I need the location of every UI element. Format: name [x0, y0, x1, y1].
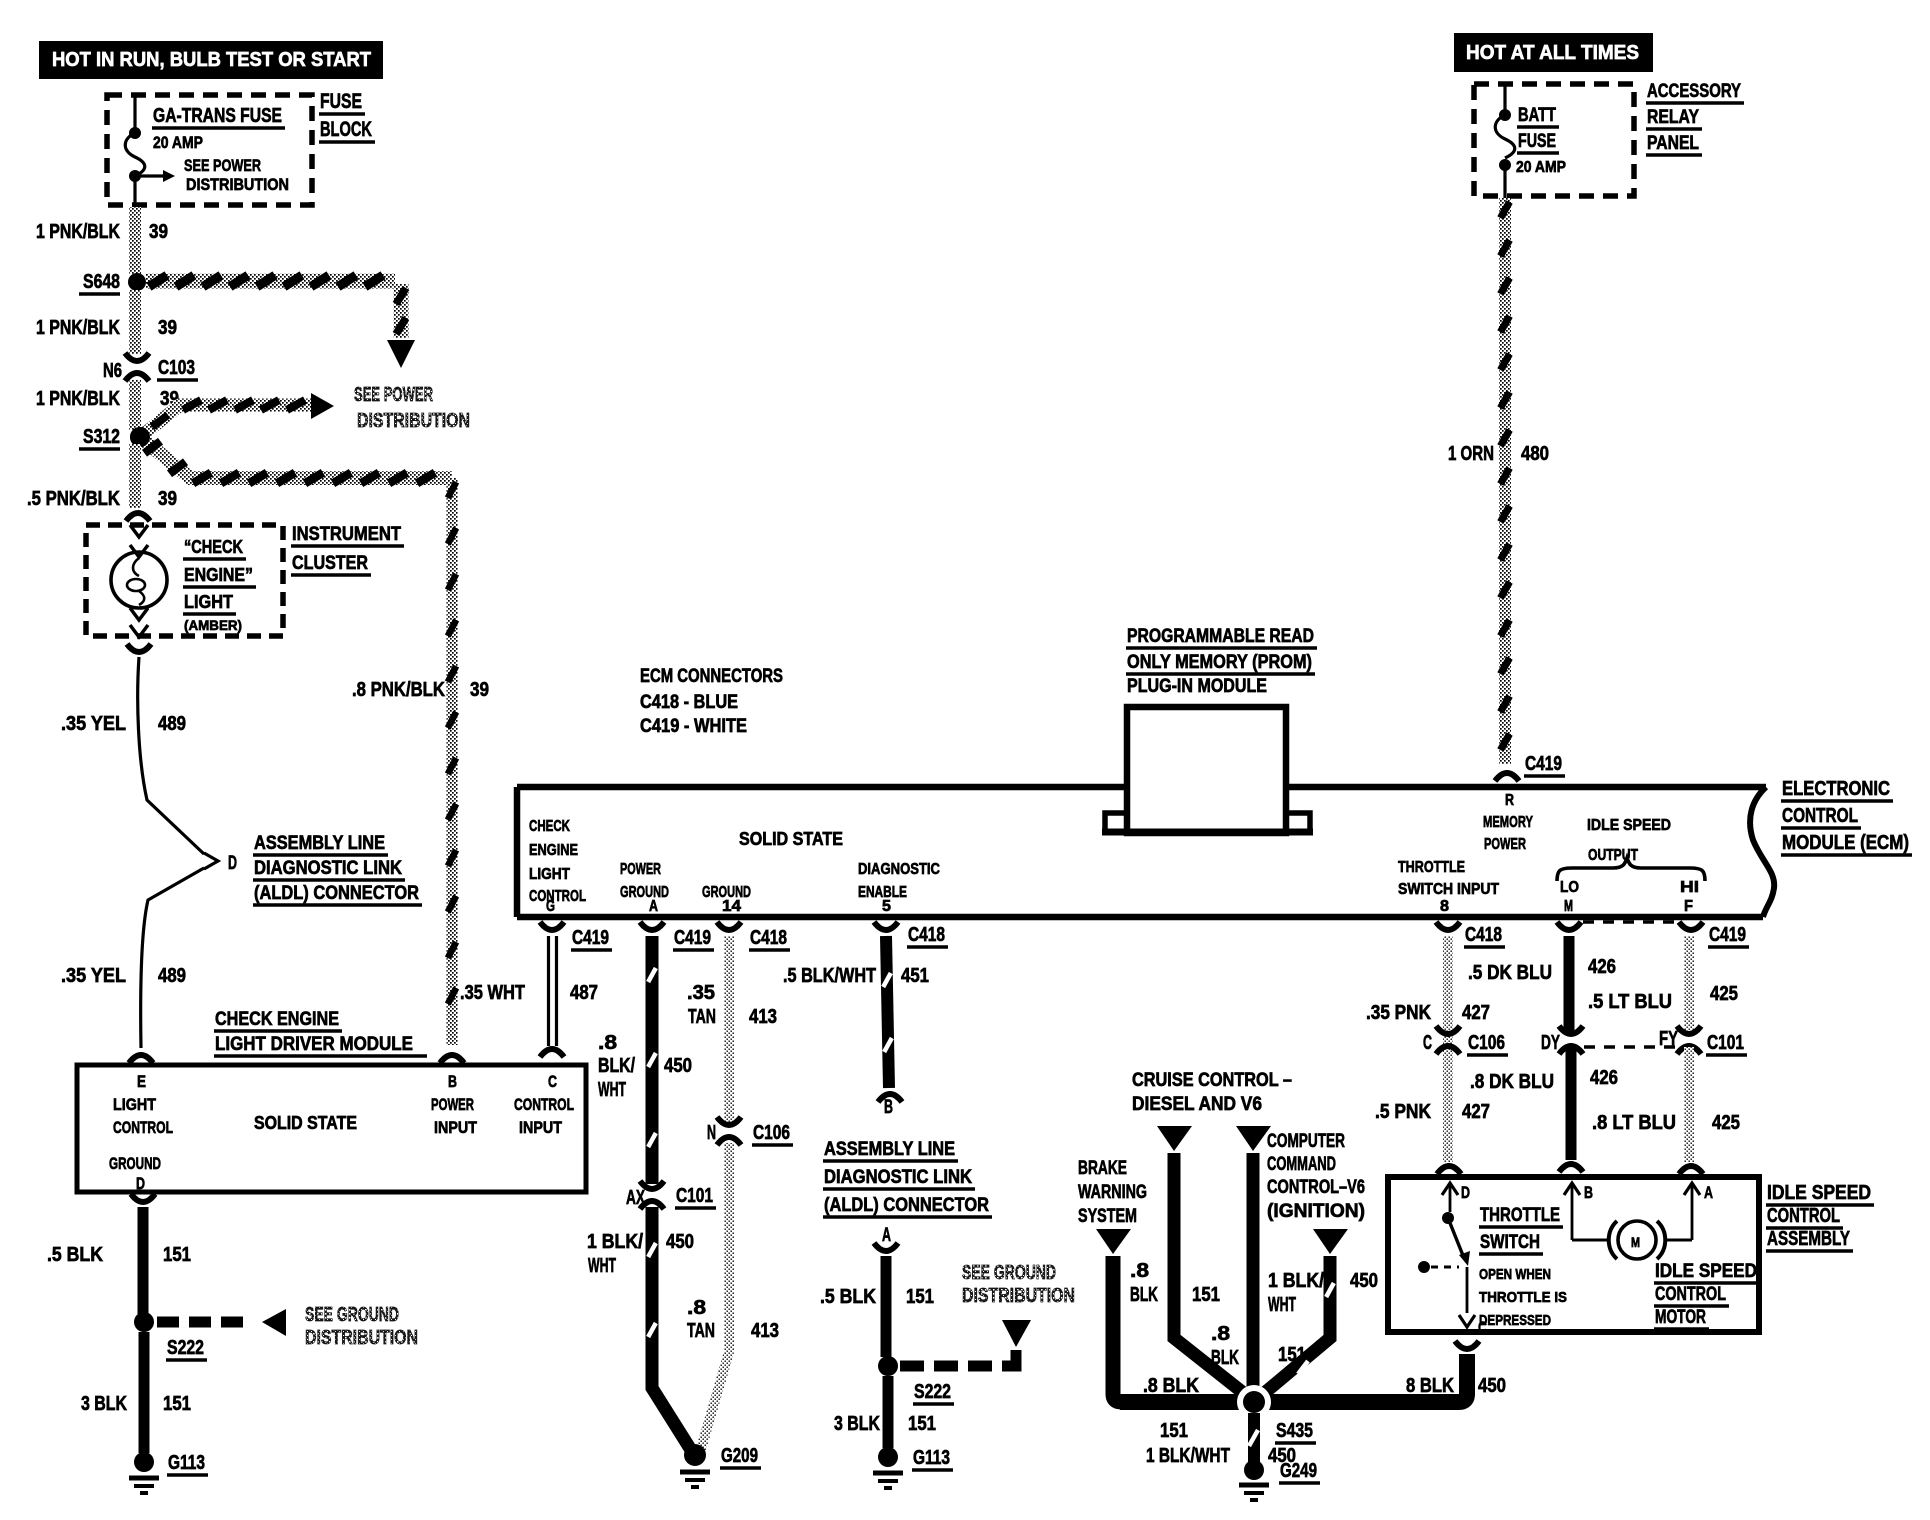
- svg-text:1 BLK/: 1 BLK/: [1268, 1270, 1324, 1292]
- svg-text:SOLID STATE: SOLID STATE: [254, 1113, 357, 1133]
- ECM pin G text: [529, 818, 586, 915]
- svg-text:COMPUTER: COMPUTER: [1267, 1131, 1345, 1152]
- connector C101 pin FY: [1659, 1026, 1747, 1055]
- connector C106 pin N: [707, 1117, 793, 1145]
- svg-text:ENGINE”: ENGINE”: [184, 565, 253, 585]
- svg-text:HOT AT ALL TIMES: HOT AT ALL TIMES: [1466, 42, 1639, 64]
- svg-text:BATT: BATT: [1518, 105, 1556, 126]
- svg-text:C419: C419: [572, 927, 609, 949]
- wire 425 .8 LT BLU: [1592, 1047, 1740, 1174]
- svg-text:HI: HI: [1680, 879, 1699, 896]
- svg-text:39: 39: [158, 317, 177, 339]
- svg-text:413: 413: [749, 1006, 777, 1028]
- dashed link C106-C101: [1584, 1045, 1675, 1048]
- connector C418 at pin 14: [717, 922, 790, 950]
- splice S648: [79, 271, 146, 294]
- connector C106 pin DY: [1541, 1026, 1583, 1054]
- svg-text:POWER: POWER: [1484, 836, 1526, 853]
- svg-text:BLK/: BLK/: [598, 1055, 635, 1077]
- wire .8 BLK 151 (cruise right): [1211, 1126, 1306, 1388]
- svg-text:425: 425: [1710, 983, 1738, 1005]
- PROM plug-in module box: [1102, 707, 1313, 833]
- svg-text:151: 151: [906, 1286, 934, 1308]
- svg-text:TAN: TAN: [687, 1320, 715, 1342]
- svg-text:OUTPUT: OUTPUT: [1588, 847, 1638, 864]
- wire 39 PNK/BLK (S648 to C103): [36, 290, 177, 354]
- svg-text:SEE GROUND: SEE GROUND: [962, 1262, 1056, 1284]
- svg-text:D: D: [228, 853, 237, 874]
- wire 39 .8 PNK/BLK vertical: [352, 478, 489, 1045]
- svg-text:POWER: POWER: [431, 1095, 474, 1114]
- note ECM connectors: [640, 666, 783, 737]
- note SEE GROUND DISTRIBUTION (middle): [962, 1262, 1075, 1307]
- svg-text:1 ORN: 1 ORN: [1448, 443, 1494, 465]
- svg-text:.8: .8: [598, 1032, 617, 1054]
- wire 39 branch to power distribution (S312 up): [140, 393, 334, 437]
- svg-text:MODULE (ECM): MODULE (ECM): [1782, 832, 1909, 854]
- check engine light driver module label: [214, 1009, 427, 1056]
- connector C419 at pin A: [640, 922, 714, 950]
- fuse block label: [319, 90, 375, 142]
- svg-text:SEE GROUND: SEE GROUND: [305, 1304, 399, 1326]
- PROM label: [1126, 626, 1317, 697]
- svg-text:GROUND: GROUND: [620, 884, 669, 901]
- svg-text:A: A: [649, 898, 658, 915]
- svg-text:S312: S312: [83, 426, 120, 448]
- node B (diagnostic enable): [878, 1094, 902, 1118]
- svg-text:489: 489: [158, 713, 186, 735]
- svg-text:1 PNK/BLK: 1 PNK/BLK: [36, 388, 120, 410]
- splice S312: [79, 426, 150, 449]
- svg-text:DISTRIBUTION: DISTRIBUTION: [186, 175, 289, 194]
- svg-text:GROUND: GROUND: [109, 1154, 161, 1173]
- connector at instrument cluster: [126, 513, 150, 521]
- ECM box (electronic control module): [517, 787, 1774, 917]
- svg-text:M: M: [1631, 1234, 1640, 1250]
- accessory relay panel (dashed box): [1474, 84, 1634, 196]
- svg-text:450: 450: [1350, 1270, 1378, 1292]
- ground G209: [680, 1444, 761, 1487]
- wire .8 BLK 151 (brake warning): [1096, 1229, 1199, 1402]
- svg-text:39: 39: [149, 221, 168, 243]
- note SEE GROUND DISTRIBUTION (left): [305, 1304, 418, 1349]
- connector C418 at pin 8: [1436, 922, 1505, 947]
- connector below driver module D: [131, 1194, 155, 1202]
- svg-text:.8: .8: [1211, 1323, 1230, 1345]
- svg-text:FUSE: FUSE: [1518, 131, 1556, 152]
- svg-text:THROTTLE IS: THROTTLE IS: [1479, 1289, 1567, 1306]
- ECM pin 5 text: [858, 861, 940, 915]
- svg-text:450: 450: [666, 1231, 694, 1253]
- connector C419 at pin G: [540, 922, 612, 950]
- svg-text:487: 487: [570, 982, 598, 1004]
- svg-text:PLUG-IN MODULE: PLUG-IN MODULE: [1127, 676, 1267, 697]
- connector C418 at pin 5: [874, 922, 948, 947]
- accessory relay panel label: [1646, 81, 1744, 155]
- svg-text:ELECTRONIC: ELECTRONIC: [1782, 778, 1890, 800]
- ALDL connector label (middle): [823, 1139, 992, 1217]
- svg-text:TAN: TAN: [688, 1006, 716, 1028]
- ECM pin F text: [1680, 879, 1699, 915]
- svg-text:C106: C106: [753, 1122, 790, 1144]
- wire 450 to G249: [1249, 1413, 1296, 1467]
- svg-text:ONLY MEMORY (PROM): ONLY MEMORY (PROM): [1127, 652, 1312, 673]
- svg-text:A: A: [1704, 1183, 1713, 1202]
- svg-text:FY: FY: [1659, 1028, 1678, 1050]
- ground G113 (middle): [873, 1447, 953, 1488]
- svg-text:C103: C103: [158, 357, 195, 379]
- svg-text:CONTROL–V6: CONTROL–V6: [1267, 1177, 1365, 1198]
- svg-text:8 BLK: 8 BLK: [1406, 1375, 1454, 1397]
- svg-text:5: 5: [882, 898, 891, 915]
- stub to ground distribution (middle): [900, 1320, 1031, 1366]
- ALDL pin A: [874, 1225, 898, 1251]
- svg-text:.8: .8: [687, 1297, 706, 1319]
- svg-text:CONTROL: CONTROL: [1767, 1205, 1840, 1227]
- svg-text:C419 - WHITE: C419 - WHITE: [640, 716, 747, 737]
- svg-text:CHECK: CHECK: [529, 818, 570, 835]
- svg-text:C: C: [1423, 1032, 1432, 1054]
- fuse block (dashed box): [107, 95, 312, 205]
- wire 426 .5 DK BLU: [1468, 922, 1616, 1033]
- svg-text:COMMAND: COMMAND: [1267, 1154, 1336, 1175]
- pin D arrow: [1442, 1183, 1470, 1212]
- svg-text:CONTROL: CONTROL: [113, 1118, 173, 1137]
- ALDL pin D tap: [204, 853, 237, 874]
- svg-text:MEMORY: MEMORY: [1483, 814, 1533, 831]
- dashed link M-F below ECM: [1583, 920, 1678, 923]
- svg-text:G: G: [546, 898, 555, 915]
- svg-text:DEPRESSED: DEPRESSED: [1479, 1312, 1551, 1329]
- wire 39 .5 PNK/BLK (S312 to cluster): [27, 444, 177, 510]
- power feed header HOT IN RUN, BULB TEST OR START: [39, 41, 383, 79]
- svg-text:151: 151: [1192, 1284, 1220, 1306]
- svg-text:.5 BLK/WHT: .5 BLK/WHT: [783, 965, 876, 987]
- svg-text:CONTROL: CONTROL: [514, 1095, 574, 1114]
- svg-text:413: 413: [751, 1320, 779, 1342]
- svg-text:C418 - BLUE: C418 - BLUE: [640, 692, 738, 713]
- idle speed control motor M1: [1572, 1221, 1692, 1259]
- svg-text:THROTTLE: THROTTLE: [1398, 859, 1465, 876]
- idle speed control motor label: [1654, 1261, 1760, 1329]
- svg-text:.5 PNK: .5 PNK: [1375, 1101, 1431, 1123]
- svg-text:151: 151: [1160, 1420, 1188, 1442]
- driver module box: [77, 1065, 586, 1192]
- svg-text:426: 426: [1588, 956, 1616, 978]
- svg-text:426: 426: [1590, 1067, 1618, 1089]
- svg-text:450: 450: [664, 1055, 692, 1077]
- wire .8 BLK 151 (cruise left): [1130, 1126, 1246, 1395]
- svg-text:WARNING: WARNING: [1078, 1182, 1147, 1203]
- svg-text:BLK: BLK: [1130, 1284, 1158, 1306]
- svg-text:.5 LT BLU: .5 LT BLU: [1588, 991, 1672, 1013]
- svg-text:(ALDL) CONNECTOR: (ALDL) CONNECTOR: [824, 1195, 989, 1216]
- svg-text:CRUISE CONTROL –: CRUISE CONTROL –: [1132, 1070, 1292, 1091]
- svg-text:14: 14: [722, 898, 741, 915]
- throttle switch: [1418, 1212, 1487, 1337]
- svg-text:3 BLK: 3 BLK: [834, 1413, 880, 1435]
- svg-text:C: C: [548, 1072, 557, 1091]
- svg-text:C101: C101: [1707, 1032, 1744, 1054]
- svg-text:.35 YEL: .35 YEL: [61, 965, 126, 987]
- ECM pin 8 text: [1398, 859, 1499, 915]
- svg-text:WHT: WHT: [598, 1079, 626, 1101]
- driver module pin caps E B C: [129, 1055, 464, 1063]
- svg-text:SWITCH INPUT: SWITCH INPUT: [1398, 881, 1499, 898]
- svg-text:C101: C101: [676, 1185, 713, 1207]
- idle speed output brace: [1557, 858, 1705, 881]
- svg-text:LIGHT: LIGHT: [184, 592, 233, 612]
- svg-text:CHECK ENGINE: CHECK ENGINE: [215, 1009, 339, 1030]
- throttle switch label: [1479, 1205, 1567, 1329]
- svg-text:(AMBER): (AMBER): [184, 617, 242, 633]
- svg-text:20 AMP: 20 AMP: [1516, 159, 1566, 176]
- svg-text:3 BLK: 3 BLK: [81, 1393, 127, 1415]
- svg-text:N6: N6: [103, 360, 122, 382]
- svg-text:AX: AX: [626, 1187, 645, 1209]
- svg-text:151: 151: [163, 1244, 191, 1266]
- svg-text:S222: S222: [167, 1337, 204, 1359]
- svg-text:INPUT: INPUT: [434, 1118, 478, 1137]
- svg-text:FUSE: FUSE: [320, 90, 362, 113]
- wire 427 .35 PNK: [1366, 936, 1490, 1124]
- svg-text:S222: S222: [914, 1381, 951, 1403]
- ECM pin M text: [1560, 879, 1579, 915]
- svg-text:ACCESSORY: ACCESSORY: [1647, 81, 1741, 102]
- svg-text:20 AMP: 20 AMP: [153, 133, 203, 152]
- svg-text:.8 LT BLU: .8 LT BLU: [1592, 1112, 1676, 1134]
- svg-text:.8: .8: [1130, 1260, 1149, 1282]
- ECM pin 14 text: [702, 884, 751, 915]
- splice S222 (middle): [878, 1356, 954, 1404]
- svg-text:PROGRAMMABLE READ: PROGRAMMABLE READ: [1127, 626, 1314, 647]
- svg-text:WHT: WHT: [1268, 1294, 1296, 1316]
- svg-text:.5 PNK/BLK: .5 PNK/BLK: [27, 488, 120, 510]
- connector C101 pin AX: [626, 1181, 716, 1209]
- ECM pin A text: [620, 861, 669, 915]
- instrument cluster label: [291, 524, 404, 575]
- svg-text:POWER: POWER: [620, 861, 661, 878]
- svg-text:ASSEMBLY LINE: ASSEMBLY LINE: [254, 833, 385, 854]
- pin A arrow: [1684, 1183, 1713, 1240]
- ECM solid state text: [739, 829, 843, 849]
- wire 39 PNK/BLK (fuse to S648): [36, 207, 168, 274]
- instrument cluster (dashed box): [86, 525, 283, 636]
- svg-text:D: D: [1461, 1183, 1470, 1202]
- svg-text:N: N: [707, 1122, 716, 1144]
- svg-text:.35 YEL: .35 YEL: [61, 713, 126, 735]
- svg-text:F: F: [1684, 898, 1693, 915]
- svg-text:“CHECK: “CHECK: [184, 537, 243, 557]
- svg-text:CONTROL: CONTROL: [529, 888, 586, 905]
- wire 487 .35 WHT (double line): [460, 936, 598, 1057]
- svg-text:SWITCH: SWITCH: [1480, 1232, 1540, 1253]
- svg-text:.8 BLK: .8 BLK: [1143, 1375, 1199, 1397]
- note COMPUTER COMMAND CONTROL: [1267, 1131, 1365, 1222]
- svg-text:480: 480: [1521, 443, 1549, 465]
- splice S222 (left): [134, 1312, 207, 1360]
- connector C103 pin N6: [103, 353, 198, 382]
- idle speed control assembly label: [1766, 1182, 1874, 1251]
- svg-text:WHT: WHT: [588, 1255, 616, 1277]
- svg-text:SYSTEM: SYSTEM: [1078, 1206, 1137, 1227]
- fuse GA-TRANS FUSE 20 AMP: [125, 97, 285, 207]
- svg-text:PANEL: PANEL: [1647, 133, 1699, 154]
- svg-text:(IGNITION): (IGNITION): [1267, 1201, 1365, 1222]
- svg-text:427: 427: [1462, 1002, 1490, 1024]
- svg-text:CONTROL: CONTROL: [1782, 805, 1858, 827]
- svg-text:.5 BLK: .5 BLK: [820, 1286, 876, 1308]
- svg-text:CLUSTER: CLUSTER: [292, 553, 368, 574]
- svg-text:RELAY: RELAY: [1647, 107, 1699, 128]
- wire 39 PNK/BLK (C103 to S312): [36, 380, 179, 430]
- svg-text:8: 8: [1440, 898, 1449, 915]
- svg-text:IDLE SPEED: IDLE SPEED: [1587, 817, 1671, 834]
- svg-text:.5 BLK: .5 BLK: [47, 1244, 103, 1266]
- svg-text:LIGHT DRIVER MODULE: LIGHT DRIVER MODULE: [215, 1034, 413, 1055]
- svg-text:C418: C418: [908, 924, 945, 946]
- wire 489 .35 YEL upper: [61, 657, 204, 854]
- connector C106 pin C: [1423, 1026, 1508, 1055]
- svg-text:39: 39: [470, 679, 489, 701]
- check engine light text: [183, 537, 256, 633]
- svg-text:C419: C419: [674, 927, 711, 949]
- wire 450 1 BLK/WHT (C101 to G209): [587, 1207, 694, 1450]
- svg-text:39: 39: [158, 488, 177, 510]
- wire 151 3 BLK (left): [81, 1332, 191, 1453]
- svg-text:DISTRIBUTION: DISTRIBUTION: [357, 410, 470, 432]
- svg-text:427: 427: [1462, 1101, 1490, 1123]
- svg-text:LIGHT: LIGHT: [113, 1095, 157, 1114]
- ECM pin R text: [1483, 792, 1533, 853]
- svg-text:.35 PNK: .35 PNK: [1366, 1002, 1431, 1024]
- svg-text:ASSEMBLY: ASSEMBLY: [1767, 1228, 1850, 1250]
- svg-text:G113: G113: [913, 1447, 950, 1469]
- wire 480 1 ORN: [1448, 198, 1549, 764]
- idle speed control assembly box: [1388, 1177, 1759, 1332]
- svg-text:151: 151: [908, 1413, 936, 1435]
- svg-text:MOTOR: MOTOR: [1655, 1307, 1706, 1328]
- svg-text:E: E: [137, 1072, 146, 1091]
- svg-text:G209: G209: [721, 1445, 758, 1467]
- svg-text:450: 450: [1478, 1375, 1506, 1397]
- ground G249: [1239, 1460, 1320, 1500]
- svg-text:C419: C419: [1525, 753, 1562, 775]
- wire 427 .5 PNK: [1375, 1054, 1490, 1174]
- svg-text:B: B: [884, 1097, 893, 1118]
- svg-text:BLOCK: BLOCK: [320, 118, 372, 141]
- svg-text:.8 PNK/BLK: .8 PNK/BLK: [352, 679, 445, 701]
- svg-text:SOLID STATE: SOLID STATE: [739, 829, 843, 849]
- wire 426 .8 DK BLU: [1470, 1047, 1618, 1172]
- note BRAKE WARNING SYSTEM: [1078, 1158, 1147, 1227]
- svg-text:LO: LO: [1560, 879, 1579, 896]
- svg-text:DIAGNOSTIC LINK: DIAGNOSTIC LINK: [254, 858, 402, 879]
- svg-text:(ALDL) CONNECTOR: (ALDL) CONNECTOR: [254, 883, 419, 904]
- wire 450 8 BLK (C to S435): [1120, 1354, 1506, 1402]
- svg-text:.35 WHT: .35 WHT: [460, 982, 525, 1004]
- stub to ground distribution (left): [157, 1309, 286, 1336]
- wire 489 .35 YEL lower: [61, 868, 204, 1048]
- svg-text:DIAGNOSTIC: DIAGNOSTIC: [858, 861, 940, 878]
- ECM idle speed output text: [1587, 817, 1671, 864]
- svg-text:1 BLK/WHT: 1 BLK/WHT: [1146, 1445, 1230, 1467]
- svg-text:1 PNK/BLK: 1 PNK/BLK: [36, 317, 120, 339]
- wire 450 1 BLK/WHT (computer command): [1262, 1229, 1378, 1395]
- svg-text:BRAKE: BRAKE: [1078, 1158, 1127, 1179]
- svg-text:INPUT: INPUT: [519, 1118, 563, 1137]
- note SEE POWER DISTRIBUTION: [354, 384, 470, 432]
- wire 151 .5 BLK: [47, 1207, 191, 1314]
- svg-text:GA-TRANS FUSE: GA-TRANS FUSE: [153, 105, 282, 127]
- svg-text:ECM CONNECTORS: ECM CONNECTORS: [640, 666, 783, 687]
- wire 151 3 BLK (middle): [834, 1376, 936, 1448]
- svg-text:HOT IN RUN, BULB TEST OR STAR: HOT IN RUN, BULB TEST OR START: [52, 49, 371, 71]
- svg-text:DISTRIBUTION: DISTRIBUTION: [962, 1285, 1075, 1307]
- wire 451 .5 BLK/WHT: [783, 936, 929, 1088]
- svg-text:451: 451: [901, 965, 929, 987]
- splice S435: [1146, 1385, 1316, 1467]
- connector below pin C: [1455, 1341, 1479, 1349]
- svg-text:S435: S435: [1276, 1420, 1313, 1442]
- svg-text:DIAGNOSTIC LINK: DIAGNOSTIC LINK: [824, 1167, 972, 1188]
- svg-text:SEE POWER: SEE POWER: [184, 156, 261, 175]
- wire 450 .8 BLK/WHT (A to C101): [598, 936, 692, 1184]
- ALDL connector label (left): [253, 833, 422, 905]
- svg-text:S648: S648: [83, 271, 120, 293]
- svg-text:B: B: [448, 1072, 457, 1091]
- wire 151 .5 BLK (ALDL): [820, 1256, 934, 1357]
- svg-text:G113: G113: [168, 1452, 205, 1474]
- svg-text:.8 DK BLU: .8 DK BLU: [1470, 1071, 1554, 1093]
- svg-text:A: A: [882, 1225, 891, 1246]
- svg-text:BLK: BLK: [1211, 1347, 1239, 1369]
- connector C419 at pin R: [1495, 753, 1565, 781]
- svg-text:G249: G249: [1280, 1460, 1317, 1482]
- svg-text:IDLE SPEED: IDLE SPEED: [1767, 1182, 1871, 1204]
- fuse BATT FUSE 20 AMP: [1495, 86, 1566, 198]
- svg-text:LIGHT: LIGHT: [529, 866, 570, 883]
- power feed header HOT AT ALL TIMES: [1454, 33, 1653, 72]
- svg-text:OPEN WHEN: OPEN WHEN: [1479, 1266, 1551, 1283]
- svg-text:DY: DY: [1541, 1032, 1560, 1054]
- svg-text:D: D: [136, 1174, 145, 1193]
- svg-text:B: B: [1584, 1183, 1593, 1202]
- svg-text:R: R: [1505, 792, 1514, 809]
- svg-text:DIESEL AND V6: DIESEL AND V6: [1132, 1094, 1262, 1115]
- driver module internal text: [109, 1072, 574, 1193]
- svg-text:SEE POWER: SEE POWER: [354, 384, 433, 406]
- svg-text:ASSEMBLY LINE: ASSEMBLY LINE: [824, 1139, 955, 1160]
- svg-text:151: 151: [163, 1393, 191, 1415]
- pin B arrow: [1564, 1183, 1593, 1240]
- svg-text:C419: C419: [1709, 924, 1746, 946]
- wire 39 PNK/BLK branch right (S312 down): [130, 427, 452, 483]
- wire 413 .8 TAN (C106 to G209): [687, 1143, 779, 1449]
- svg-text:CONTROL: CONTROL: [1655, 1284, 1726, 1305]
- svg-text:C418: C418: [750, 927, 787, 949]
- svg-text:THROTTLE: THROTTLE: [1480, 1205, 1560, 1226]
- connector C419 at pin F: [1679, 922, 1749, 947]
- wire 413 .35 TAN: [687, 936, 777, 1124]
- svg-text:C418: C418: [1465, 924, 1502, 946]
- note CRUISE CONTROL: [1132, 1070, 1292, 1115]
- check engine light (lamp): [111, 525, 167, 637]
- ground G113 (left): [129, 1452, 208, 1493]
- connector below cluster: [127, 644, 151, 652]
- svg-text:.5 DK BLU: .5 DK BLU: [1468, 962, 1552, 984]
- arrow see power distribution (fuse): [140, 156, 289, 194]
